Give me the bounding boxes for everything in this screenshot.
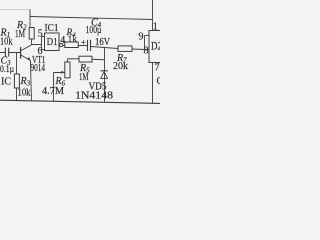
wire R4 to C4 [78, 45, 87, 47]
wire input left to C3 [0, 52, 5, 54]
svg-text:9014: 9014 [31, 63, 46, 74]
wire R3 bottom to ground rail [16, 88, 18, 101]
svg-text:9: 9 [139, 32, 144, 43]
resistor R6 [65, 62, 70, 78]
capacitor C4 plate left [87, 40, 89, 51]
wire input tie 5-6 [41, 37, 43, 50]
wire D1 output to R4 [63, 45, 65, 47]
svg-text:5: 5 [38, 29, 43, 40]
wire junction to R6 left [54, 72, 65, 74]
transistor Q1 base bar [20, 47, 22, 59]
capacitor C3 plate left [4, 48, 6, 57]
svg-text:4: 4 [60, 35, 65, 46]
svg-text:0.1µ: 0.1µ [0, 65, 14, 75]
svg-text:10k: 10k [18, 88, 31, 99]
capacitor C3 plate right [8, 48, 10, 57]
svg-text:D1: D1 [47, 36, 58, 48]
wire emitter down to ground rail [30, 60, 31, 101]
svg-text:7: 7 [155, 63, 160, 74]
svg-text:1: 1 [153, 22, 158, 33]
wire D2 pin7 ground lead [152, 63, 154, 104]
wire R6 top lead [66, 59, 68, 62]
node output bubble of D1 [60, 44, 63, 47]
svg-text:16V: 16V [95, 37, 111, 48]
wire R6 to R5 [67, 58, 79, 60]
resistor R7 [118, 46, 132, 52]
wire pin9 stub [145, 35, 150, 37]
svg-text:8: 8 [144, 46, 149, 57]
resistor R4 [65, 42, 78, 48]
wire top-left VDD rail [0, 9, 30, 11]
svg-text:1N4148: 1N4148 [75, 91, 113, 102]
emitter arrowhead [27, 57, 30, 61]
wire C3 to VT1 base [9, 52, 20, 54]
wire pin6 stub [42, 49, 45, 51]
transistor Q1 collector stroke [21, 45, 31, 50]
svg-text:100µ: 100µ [86, 25, 102, 36]
wire R7 to D2 input tie [132, 48, 145, 51]
wire input tie 8-9 [144, 36, 146, 50]
op-amp U2 gate D2 box [149, 31, 162, 63]
svg-text:1M: 1M [15, 29, 25, 40]
svg-text:C: C [157, 76, 161, 87]
diode VD5 cathode bar [100, 70, 107, 72]
svg-text:+: + [81, 38, 86, 48]
resistor R3 [14, 74, 19, 88]
wire top rail jog / R2 top lead [29, 10, 31, 28]
junction blob at R6 left [61, 71, 65, 74]
svg-text:D2: D2 [151, 41, 160, 53]
transistor Q1 emitter stroke [21, 55, 30, 60]
wire collector node to D1 inputs [32, 44, 42, 46]
wire base tap down to R3 [16, 53, 18, 75]
svg-text:4.7M: 4.7M [42, 86, 64, 97]
svg-text:1k: 1k [68, 35, 78, 45]
wire R2 bottom to collector node [31, 39, 33, 45]
svg-text:20k: 20k [113, 61, 128, 72]
svg-text:IC1: IC1 [45, 23, 59, 34]
wire pin5 stub [42, 36, 45, 38]
diode VD5 triangle [101, 72, 108, 79]
resistor R5 [79, 56, 92, 62]
capacitor C4 plate right [90, 40, 92, 51]
wire pin8 stub [145, 49, 150, 51]
wire R5 right to VD5 line [92, 58, 105, 61]
wire D2 pin14 VDD lead [152, 0, 154, 31]
wire C4 to R7 [91, 47, 118, 49]
op-amp U1 gate D1 box [45, 33, 60, 51]
wire C4/R7 node down through VD5 to ground [104, 47, 106, 102]
wire ground riser to R6 junction [53, 73, 55, 102]
resistor R2 [29, 28, 34, 40]
svg-text:10k: 10k [0, 37, 13, 48]
svg-text:IC: IC [1, 77, 11, 88]
wire bottom ground rail [0, 100, 160, 103]
wire top-right VDD rail [30, 17, 152, 20]
svg-text:1M: 1M [79, 72, 89, 83]
